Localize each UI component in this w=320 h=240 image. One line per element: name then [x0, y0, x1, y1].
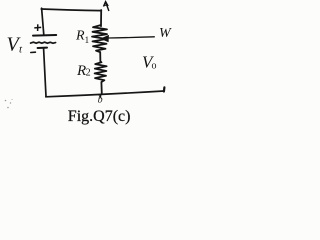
scan speckles (noise) — [5, 99, 13, 108]
battery minus sign — [31, 51, 36, 53]
wire left bottom vertical (battery - to bottom wire) — [44, 49, 46, 97]
resistor R1 (zigzag) — [92, 25, 107, 52]
terminal tick at right end of bottom wire — [163, 87, 166, 91]
wiper arrow (arrowhead into R1) — [101, 35, 109, 42]
battery long plate — [33, 34, 56, 37]
wire R1 to R2 connector — [99, 52, 101, 62]
battery short plate — [38, 47, 47, 49]
svg-text:Fig.Q7(c): Fig.Q7(c) — [68, 108, 131, 125]
svg-text:o: o — [152, 60, 157, 71]
battery second (sketchy) plate — [31, 42, 56, 43]
node b (tick + label) — [99, 94, 102, 98]
node A (arrow + label) — [104, 2, 109, 11]
wire left top vertical (top wire to battery +) — [42, 8, 44, 35]
wire R2 to bottom wire — [100, 82, 102, 94]
battery plus sign — [34, 24, 41, 31]
wire right vertical (top wire to R1) — [100, 10, 102, 26]
svg-text:W: W — [159, 26, 172, 41]
wire bottom horizontal — [46, 91, 164, 97]
svg-text:R: R — [75, 28, 85, 43]
svg-text:1: 1 — [85, 35, 90, 45]
svg-text:2: 2 — [86, 68, 91, 79]
svg-text:b: b — [98, 95, 103, 106]
wire wiper to W — [108, 37, 154, 38]
wire top horizontal — [41, 9, 101, 11]
resistor R2 (zigzag) — [95, 62, 107, 82]
